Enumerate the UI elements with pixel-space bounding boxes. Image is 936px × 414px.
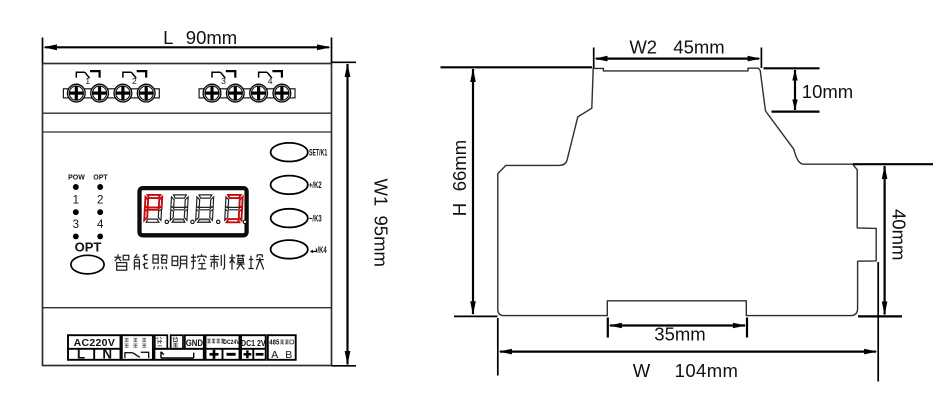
svg-text:10mm: 10mm — [802, 81, 853, 102]
relay contact symbols above terminals — [76, 71, 282, 86]
extension line top — [332, 61, 357, 63]
svg-text:/K4: /K4 — [318, 245, 328, 256]
OPT button ellipse — [71, 255, 104, 274]
svg-text:3: 3 — [221, 76, 226, 86]
arrowhead top — [470, 68, 476, 82]
dimension line — [45, 46, 329, 48]
svg-text:90mm: 90mm — [186, 27, 237, 48]
svg-text:L: L — [163, 27, 173, 48]
svg-text:95mm: 95mm — [371, 216, 392, 267]
minus terminal (DC12V) — [256, 353, 264, 356]
svg-text:W1: W1 — [371, 179, 392, 207]
reference line top — [764, 67, 820, 69]
svg-text:DC1 2V: DC1 2V — [241, 338, 266, 348]
svg-text:485: 485 — [269, 339, 279, 347]
arrowhead bottom — [345, 351, 351, 365]
digit 2 decimal point — [191, 220, 194, 223]
box DC12V — [241, 335, 266, 360]
box fire-zone signal (消防区信号输) — [122, 335, 153, 360]
arrowhead top — [345, 63, 351, 77]
svg-text:45mm: 45mm — [673, 37, 724, 58]
svg-text:OPT: OPT — [75, 240, 102, 255]
LED 3 — [73, 233, 79, 239]
arrowhead right — [748, 56, 761, 62]
char 控 — [191, 254, 206, 269]
svg-text:N: N — [102, 347, 112, 362]
LED POW — [73, 184, 79, 190]
screw terminal 5 — [203, 84, 221, 102]
button K1 — [271, 143, 308, 162]
box AC220V — [68, 335, 121, 360]
svg-text:OPT: OPT — [93, 174, 108, 181]
box common (公共) — [155, 335, 168, 349]
minus terminal (fire) — [227, 353, 236, 356]
relay contact 2 — [123, 71, 146, 78]
dimension line — [610, 324, 745, 326]
button K3 — [271, 209, 308, 228]
arrowhead left — [594, 56, 607, 62]
svg-text:1: 1 — [73, 195, 79, 207]
svg-text:2: 2 — [97, 195, 103, 207]
svg-text:1: 1 — [85, 76, 90, 86]
reference line bottom — [772, 110, 820, 112]
svg-text:104mm: 104mm — [675, 360, 739, 381]
svg-text:35mm: 35mm — [654, 324, 705, 345]
relay contact 3 — [212, 71, 235, 78]
digit 3 (gray 8) — [196, 195, 214, 222]
display bezel — [140, 188, 247, 235]
svg-text:66mm: 66mm — [449, 140, 470, 191]
svg-text:POW: POW — [68, 174, 85, 181]
svg-text:GND: GND — [186, 337, 203, 348]
char 智 — [114, 254, 128, 270]
extension tick right — [760, 48, 762, 69]
screw terminal 1 — [67, 84, 85, 102]
svg-text:3: 3 — [73, 219, 79, 231]
dimension line — [472, 69, 474, 314]
digit 2 (gray 8) — [170, 195, 188, 222]
box spare (备用) — [171, 335, 183, 349]
screw terminal 6 — [226, 84, 244, 102]
char 块 — [248, 255, 263, 270]
svg-text:A: A — [271, 349, 278, 361]
digit 1 decimal point — [165, 220, 168, 223]
svg-text:DC24V: DC24V — [223, 339, 240, 345]
digit 3 decimal point — [217, 220, 220, 223]
screw terminal 7 — [250, 84, 268, 102]
screw terminal 8 — [273, 84, 291, 102]
screw terminal 2 — [91, 84, 109, 102]
extension tick left — [607, 318, 609, 338]
dimension line — [596, 57, 759, 59]
digit 4 (red) — [225, 195, 243, 222]
screw terminal 4 — [137, 84, 155, 102]
LED OPT — [97, 184, 103, 190]
svg-text:−/K3: −/K3 — [309, 213, 322, 224]
terminal block body group 1 — [63, 89, 159, 98]
digit 4 decimal point — [243, 220, 246, 223]
extension line bottom — [332, 365, 357, 367]
box fire input DC24V (消防输入DC24V) — [206, 335, 240, 360]
char 照 — [153, 255, 167, 269]
reference line bottom — [454, 315, 498, 317]
relay contact 1 — [76, 71, 99, 78]
reference line bottom — [858, 315, 902, 317]
reference line top — [853, 163, 933, 165]
svg-text:4: 4 — [97, 219, 104, 231]
dimension line — [883, 166, 885, 315]
svg-text:W2: W2 — [629, 37, 657, 58]
screw terminal 3 — [114, 84, 132, 102]
char 明 — [172, 256, 187, 269]
arrowhead left — [43, 44, 57, 50]
relay contact 4 — [259, 71, 282, 78]
arrowhead right — [317, 44, 331, 50]
digit 1 (red A) — [144, 195, 162, 222]
common/spare contact cell — [154, 349, 203, 360]
LED 4 — [97, 233, 103, 239]
char 能 — [134, 254, 148, 269]
fire-zone contact symbol — [125, 352, 149, 358]
svg-text:SET/K1: SET/K1 — [309, 147, 328, 158]
divider line above main panel — [43, 131, 332, 133]
svg-text:4: 4 — [268, 76, 273, 86]
dimension line — [500, 351, 876, 353]
reference line top — [441, 66, 593, 68]
LED 1 — [73, 209, 79, 215]
extension line right — [877, 262, 879, 382]
profile outline — [498, 68, 876, 315]
svg-text:2: 2 — [132, 76, 137, 86]
extension tick left — [593, 48, 595, 69]
extension line left — [497, 318, 499, 376]
extension tick right — [746, 318, 748, 338]
button K2 — [271, 176, 308, 195]
svg-text:B: B — [285, 349, 292, 361]
char 模 — [229, 254, 244, 269]
divider line under terminal band — [43, 112, 332, 114]
box GND — [185, 335, 204, 349]
dimension line — [346, 64, 348, 365]
extension tick right — [331, 38, 333, 64]
svg-text:L: L — [77, 347, 85, 362]
terminal block body group 2 — [199, 89, 295, 98]
plus terminal (fire) — [210, 350, 219, 359]
divider line above bottom band — [43, 307, 332, 309]
plus terminal (DC12V) — [244, 350, 252, 358]
box RS485 (485数据口) — [268, 335, 296, 360]
arrowhead bottom — [470, 301, 476, 315]
LED 2 — [97, 209, 103, 215]
extension tick left — [42, 38, 44, 64]
svg-text:W: W — [633, 360, 651, 381]
svg-text:40mm: 40mm — [889, 209, 910, 260]
device outer frame — [43, 64, 332, 366]
dimension double arrow — [794, 70, 796, 110]
button K4 — [271, 240, 308, 259]
svg-text:H: H — [449, 203, 470, 216]
svg-text:+/K2: +/K2 — [309, 180, 322, 191]
char 制 — [210, 254, 224, 269]
